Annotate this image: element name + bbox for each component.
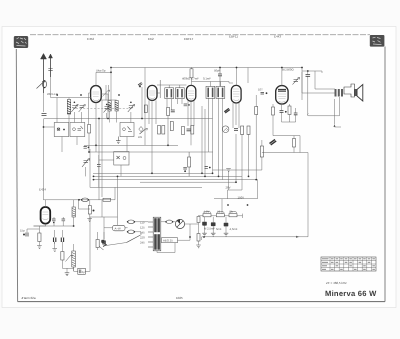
svg-text:E452: E452 bbox=[87, 37, 94, 41]
wire right vertical x302 bbox=[301, 68, 303, 94]
wire transformer primary side bbox=[106, 243, 127, 246]
wire bus y180 bbox=[140, 181, 236, 183]
capacitor C16 with dot bbox=[84, 147, 90, 149]
wire supply bus 1 bbox=[93, 172, 213, 174]
wire supply bus 2 bbox=[93, 175, 242, 177]
logo box top-right bbox=[370, 35, 385, 47]
svg-text:145: 145 bbox=[140, 231, 145, 235]
wire ground bus y236.8 bbox=[201, 237, 308, 240]
fuse F2 bbox=[127, 230, 135, 234]
antenna symbol bbox=[41, 54, 53, 94]
wire magic eye feed bbox=[44, 199, 116, 201]
resistor R23 bbox=[293, 139, 296, 148]
svg-text:150V: 150V bbox=[238, 196, 245, 200]
wire tube5 drops bbox=[272, 104, 274, 107]
capacitor C4 under tube5 bbox=[280, 111, 284, 113]
divider grounds bbox=[202, 233, 228, 236]
wire box C top bbox=[99, 159, 114, 161]
wire tube3 pins bbox=[187, 101, 189, 126]
phono jack circle bbox=[222, 126, 229, 133]
wire tube1 cathode bbox=[95, 103, 97, 153]
resistor R16 horizontal bbox=[103, 198, 111, 201]
oscillator coil L1 bbox=[67, 100, 70, 115]
svg-text:4,5mF: 4,5mF bbox=[230, 227, 238, 231]
electrolytic box bbox=[78, 268, 86, 274]
svg-text:EBF1T: EBF1T bbox=[184, 37, 194, 41]
resistor R17 small bbox=[87, 206, 94, 222]
bottom-right data table bbox=[321, 257, 376, 271]
wire speaker top feed bbox=[247, 68, 249, 84]
svg-text:JHann 62a: JHann 62a bbox=[21, 296, 36, 300]
transformer tap labels bbox=[140, 221, 145, 245]
resistor R14 under tube4 bbox=[247, 126, 250, 135]
resistor R19 bbox=[197, 234, 200, 242]
svg-text:125: 125 bbox=[140, 226, 145, 230]
tube V3 EBF bbox=[186, 85, 195, 101]
svg-text:50pF: 50pF bbox=[214, 69, 221, 73]
resistor R15 mid right bbox=[260, 146, 263, 157]
wire plate bus y72 bbox=[281, 68, 283, 86]
wire pot feeds bbox=[198, 215, 203, 217]
svg-text:Ukw.Sp: Ukw.Sp bbox=[96, 69, 106, 73]
frame right border bbox=[384, 47, 386, 302]
tuning gang capacitor CV2 bbox=[128, 102, 135, 113]
voltage divider pot 1 bbox=[203, 210, 211, 217]
bandswitch box A bbox=[54, 123, 69, 137]
HT fuse bbox=[165, 220, 173, 223]
wire speaker return arrow bbox=[334, 124, 336, 127]
blocking capacitor dark D1 bbox=[270, 140, 277, 145]
capacitor C20 tube3 cathode bbox=[184, 104, 190, 106]
coupling cap C5 bbox=[306, 75, 311, 77]
svg-text:A−W: A−W bbox=[115, 227, 121, 231]
AVC cap C13 bbox=[20, 229, 28, 237]
wire coil drops front end bbox=[56, 98, 58, 123]
wires main bbox=[27, 68, 341, 273]
bandswitch box B bbox=[120, 123, 134, 137]
IF transformer T2 secondary can bbox=[216, 86, 225, 98]
grid wire tube2 bbox=[157, 80, 160, 98]
capacitor C15 bbox=[97, 165, 101, 167]
wire box drops bbox=[61, 137, 63, 153]
svg-text:E443: E443 bbox=[274, 35, 281, 39]
resistor R21 under y152 bbox=[188, 152, 191, 176]
wire grid bus top bbox=[111, 67, 302, 69]
wire supply bus 3 bbox=[93, 179, 258, 181]
capacitor C9 under tube3 bbox=[187, 129, 191, 131]
speaker cone bbox=[355, 85, 363, 102]
svg-text:M 2,5mF: M 2,5mF bbox=[204, 227, 215, 231]
capacitor C19 with dot bbox=[205, 167, 211, 169]
svg-text:E424: E424 bbox=[39, 188, 46, 192]
tube V1 E452 bbox=[91, 86, 102, 103]
svg-text:110: 110 bbox=[140, 221, 145, 225]
AVC trimmer bbox=[82, 159, 90, 168]
magic eye coil L4 bbox=[72, 207, 75, 217]
IF transformer T2 primary can bbox=[206, 86, 215, 98]
wire tube1 grid bbox=[89, 92, 91, 94]
power transformer bbox=[148, 217, 161, 251]
mains switch bbox=[127, 235, 141, 243]
IF transformer T1 secondary can bbox=[175, 88, 184, 99]
tube V4 EBF11 bbox=[231, 85, 241, 103]
svg-text:Bl.2500Ω: Bl.2500Ω bbox=[282, 68, 294, 72]
wire under tube4 cluster drops bbox=[241, 134, 243, 176]
field coil L5 bbox=[72, 251, 76, 267]
RF coil L3b bbox=[115, 101, 118, 112]
voltage divider pot 2 bbox=[216, 210, 224, 217]
AVC resistor R7 bbox=[38, 233, 41, 242]
svg-text:A1: A1 bbox=[217, 210, 221, 214]
wire C5 branch bbox=[302, 70, 322, 72]
wire tube2 drop bbox=[151, 100, 153, 173]
series capacitor C1 bbox=[42, 114, 47, 116]
svg-text:ZF = 468,5 kHz: ZF = 468,5 kHz bbox=[326, 281, 347, 285]
grid capacitor C2 bbox=[138, 83, 142, 88]
wire magic eye left bbox=[38, 226, 40, 233]
wire bottom left bbox=[54, 230, 56, 238]
detector diode caps bbox=[52, 219, 65, 223]
wire 28V run bbox=[228, 189, 243, 191]
svg-text:400kΩ 4,7mF: 400kΩ 4,7mF bbox=[182, 77, 199, 81]
wire tube4 pins bbox=[232, 103, 234, 128]
svg-text:5mF: 5mF bbox=[216, 227, 222, 231]
capacitor C18 bbox=[183, 167, 187, 172]
capacitor C3 bbox=[171, 110, 175, 112]
bandswitch box C bbox=[114, 152, 129, 166]
svg-text:220: 220 bbox=[140, 236, 145, 240]
cap C8 bbox=[103, 241, 105, 245]
svg-text:1025: 1025 bbox=[176, 296, 183, 300]
capacitor C14 dark bbox=[203, 223, 207, 225]
gang capacitor CV3 bbox=[104, 104, 111, 113]
wire IFT2 leads bbox=[210, 82, 212, 87]
svg-text:EBF11: EBF11 bbox=[229, 35, 238, 39]
resistor R4 mid bbox=[255, 107, 258, 115]
svg-text:15p: 15p bbox=[20, 229, 25, 233]
svg-text:28V: 28V bbox=[226, 186, 231, 190]
wire IFT1 leads bbox=[166, 99, 168, 108]
resistor R8 bbox=[96, 240, 99, 248]
tube V6 magic eye E424 bbox=[41, 207, 51, 224]
AVC cap C6 bbox=[54, 238, 56, 243]
resistor R13 under tube4 bbox=[241, 126, 244, 135]
capacitor C11 50pF bbox=[214, 68, 222, 87]
svg-text:10T: 10T bbox=[258, 88, 263, 92]
resistor R24 bbox=[170, 122, 173, 131]
svg-text:245: 245 bbox=[140, 241, 145, 245]
ground under R19 bbox=[196, 245, 201, 248]
resistor R20 bbox=[144, 105, 147, 113]
IF transformer T1 primary can bbox=[165, 88, 174, 99]
frame bottom border bbox=[18, 301, 386, 303]
svg-text:AEG 25: AEG 25 bbox=[163, 239, 173, 243]
ground under R7 bbox=[37, 246, 42, 249]
tube V2 EK2 bbox=[147, 85, 157, 100]
svg-text:2μ: 2μ bbox=[82, 270, 86, 274]
wire CV2 drop bbox=[126, 137, 128, 152]
resistor R12 bbox=[191, 126, 194, 135]
svg-text:EK2: EK2 bbox=[148, 37, 154, 41]
capacitor C17 bbox=[294, 113, 298, 115]
fuse F1 bbox=[127, 220, 135, 224]
tuning gang capacitor CV1 bbox=[71, 102, 78, 113]
logo box top-left bbox=[14, 36, 28, 48]
wire antenna to input bbox=[43, 93, 45, 112]
ground under box B bbox=[116, 137, 121, 144]
capacitor C12 small bbox=[258, 88, 267, 95]
resistor R6 right of tube5 bbox=[288, 106, 291, 115]
ground top mid bbox=[226, 169, 231, 172]
table cell figures bbox=[322, 259, 375, 270]
resistor R2 bbox=[88, 125, 91, 134]
resistor R11 under tube3 bbox=[182, 127, 185, 135]
trimmer tone cap bbox=[293, 78, 300, 85]
rectifier box bbox=[162, 238, 178, 243]
resistor R9 under tube2 bbox=[158, 126, 161, 135]
capacitor C10 under tube4 bbox=[234, 129, 238, 131]
divider electrolytic caps bbox=[202, 222, 228, 227]
output transformer bbox=[335, 84, 355, 97]
svg-text:Minerva 66 W: Minerva 66 W bbox=[325, 289, 377, 298]
cap C7 bbox=[61, 238, 63, 243]
wave switch arrow bbox=[138, 127, 147, 139]
wire right side verticals bbox=[255, 95, 257, 107]
wire bus y190 bbox=[90, 186, 202, 188]
padding capacitor dark bbox=[224, 108, 230, 113]
ground under L5 bbox=[65, 273, 70, 276]
padder trimmer CT1 bbox=[79, 105, 86, 113]
frame left border bbox=[16, 49, 17, 302]
frame top border bbox=[30, 34, 370, 36]
dial lamp bbox=[175, 219, 184, 228]
wire bus y145 bbox=[84, 144, 178, 146]
wire tuning gang link bbox=[76, 108, 129, 110]
wire long bus y118.5 bbox=[44, 118, 213, 120]
wire 2uF box bbox=[73, 267, 75, 271]
fuse oval in eye feed bbox=[81, 198, 89, 202]
resistor R5 under tube5 bbox=[272, 107, 275, 115]
svg-text:0,1mF: 0,1mF bbox=[203, 77, 211, 81]
A-W box bbox=[113, 225, 126, 231]
svg-text:LW: LW bbox=[138, 135, 142, 139]
svg-text:4,5V: 4,5V bbox=[204, 210, 210, 214]
wire mid-right resistor leads bbox=[261, 140, 263, 146]
wire bus y152 bbox=[89, 151, 213, 153]
wire mid verticals bbox=[201, 106, 203, 173]
resistor R10 under tube2 bbox=[162, 126, 165, 135]
wire tube1 right bbox=[101, 93, 108, 95]
RF coil L3 bbox=[108, 101, 111, 112]
wire tube2 pins bbox=[148, 100, 150, 124]
resistor R22 above tube3 bbox=[190, 68, 193, 82]
bandswitch box A2 bbox=[70, 123, 85, 137]
ground under C6 C7 bbox=[52, 249, 57, 252]
tube V5 E443 output bbox=[276, 86, 288, 104]
mains plug bbox=[100, 240, 108, 250]
wire tube3 drop bbox=[190, 101, 192, 145]
volume pot P1 bbox=[61, 252, 73, 262]
voltage divider pot 3 bbox=[229, 210, 237, 217]
resistor R3 under IFT1 bbox=[167, 108, 170, 116]
resistor R18 right of lamp bbox=[197, 217, 200, 223]
wire magic eye drops bbox=[53, 217, 55, 219]
antenna series trimmer bbox=[37, 80, 47, 88]
wire tube4 drop bbox=[235, 103, 237, 125]
wire transformer secondary bbox=[161, 221, 166, 223]
